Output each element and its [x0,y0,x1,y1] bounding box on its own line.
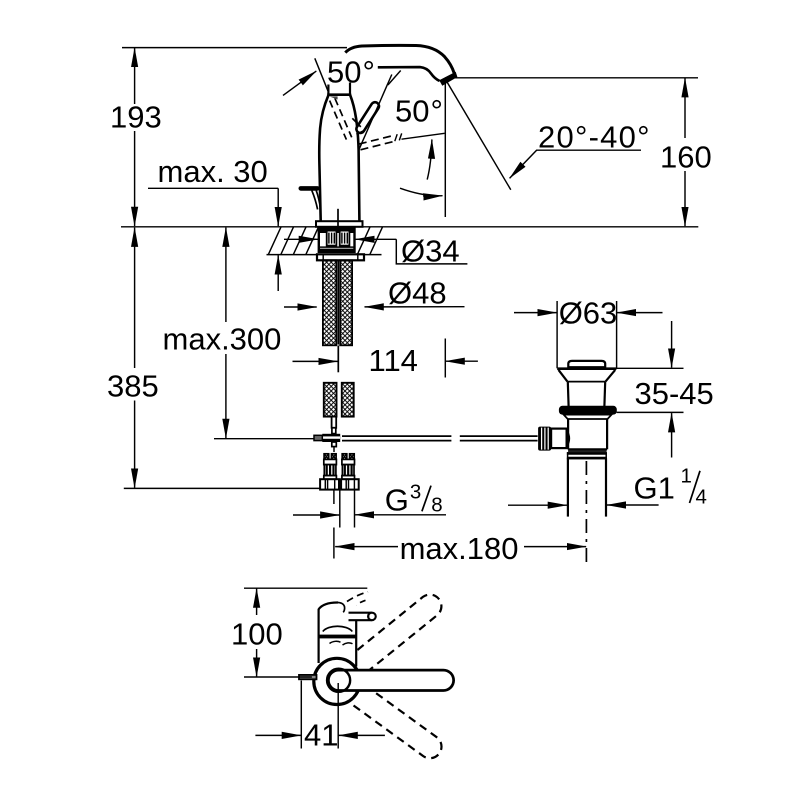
svg-text:G: G [385,482,409,517]
svg-text:193: 193 [110,100,162,135]
svg-text:max.180: max.180 [400,531,519,566]
svg-text:G1: G1 [634,471,675,506]
svg-text:4: 4 [696,485,707,508]
svg-text:3: 3 [410,480,421,503]
svg-text:100: 100 [231,617,283,652]
svg-text:35-45: 35-45 [635,376,714,411]
svg-text:114: 114 [369,343,418,378]
svg-text:max. 30: max. 30 [158,154,268,189]
svg-text:20°-40°: 20°-40° [538,120,650,155]
svg-text:50°: 50° [395,94,443,129]
svg-text:Ø63: Ø63 [559,295,618,330]
svg-text:1: 1 [681,465,692,488]
svg-text:385: 385 [107,369,159,404]
svg-text:max.300: max.300 [163,322,282,357]
svg-text:8: 8 [431,494,442,517]
svg-text:41: 41 [304,717,338,752]
svg-text:Ø48: Ø48 [388,276,447,311]
svg-text:160: 160 [660,140,712,175]
svg-text:Ø34: Ø34 [401,233,460,268]
